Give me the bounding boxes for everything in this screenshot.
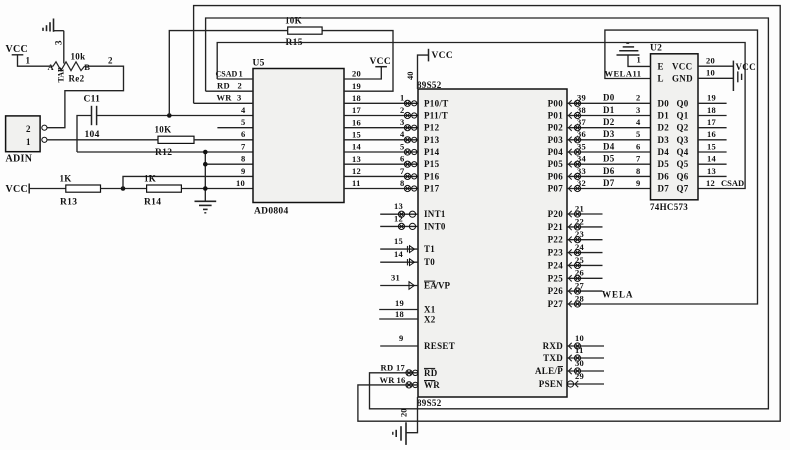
wire T1 stub bbox=[380, 246, 418, 253]
svg-text:D5: D5 bbox=[603, 154, 615, 164]
label P24 (89S52) bbox=[548, 260, 564, 270]
wire AD0804 pin16 to 89S52 P12 bbox=[344, 127, 418, 129]
pin decoration 89S52 pin6 bbox=[404, 161, 416, 167]
pin number 18 (74HC573 right) bbox=[707, 105, 716, 115]
label T0 (89S52) bbox=[424, 257, 435, 267]
wire AD0804 pin19 to R15 bbox=[322, 31, 393, 92]
svg-text:D4: D4 bbox=[603, 141, 615, 151]
pin number 5 (AD0804 left) bbox=[241, 117, 246, 127]
wire Q4 stub bbox=[698, 151, 727, 153]
svg-text:25: 25 bbox=[575, 255, 584, 265]
svg-text:/VP: /VP bbox=[435, 281, 451, 291]
label P27 (89S52) bbox=[548, 299, 564, 309]
svg-text:P21: P21 bbox=[548, 222, 564, 232]
svg-text:1: 1 bbox=[239, 69, 244, 79]
label D0 (bus) bbox=[603, 93, 615, 103]
pin number 7 (89S52 left) bbox=[400, 166, 405, 176]
pot pin 2 label bbox=[108, 56, 113, 66]
svg-text:15: 15 bbox=[394, 236, 403, 246]
svg-text:15: 15 bbox=[352, 129, 361, 139]
wire ADIN pin1 to R12 bbox=[47, 139, 158, 141]
label TXD (89S52) bbox=[543, 353, 563, 363]
wire AD0804 pin17 to 89S52 P11 bbox=[344, 115, 418, 117]
pin number 17 (AD0804 right) bbox=[352, 105, 362, 115]
svg-text:89S52: 89S52 bbox=[417, 398, 442, 408]
capacitor C11 (104) bbox=[84, 95, 101, 141]
label P26 (89S52) bbox=[548, 286, 564, 296]
svg-text:19: 19 bbox=[707, 93, 716, 103]
svg-text:VCC: VCC bbox=[432, 51, 453, 61]
svg-text:P12: P12 bbox=[424, 123, 440, 133]
pin decoration 89S52 pin1 bbox=[404, 100, 416, 106]
wire PSEN stub bbox=[567, 381, 604, 387]
junction R13/R14 node bbox=[121, 186, 126, 191]
potentiometer Re2 (10k) bbox=[48, 62, 91, 72]
pin decoration 89S52 pin3 bbox=[404, 125, 416, 131]
svg-text:P03: P03 bbox=[548, 135, 564, 145]
svg-text:Q5: Q5 bbox=[677, 159, 689, 169]
svg-text:ADIN: ADIN bbox=[6, 154, 33, 165]
label X1 (89S52) bbox=[424, 305, 436, 315]
wire AD0804 pin13 to 89S52 P15 bbox=[344, 163, 418, 165]
pin number 6 (74HC573 left) bbox=[636, 141, 641, 151]
svg-text:20: 20 bbox=[352, 69, 361, 79]
label P20 (89S52) bbox=[548, 209, 564, 219]
wire AD0804 pin11 to 89S52 P17 bbox=[344, 188, 418, 190]
pin number 15 (74HC573 right) bbox=[707, 141, 716, 151]
wire C11 right to AD0804 pin4 bbox=[97, 115, 253, 117]
pin number 3 (89S52 left) bbox=[400, 117, 405, 127]
power VCC (left, R13 row) bbox=[6, 184, 30, 196]
ground (top-left, rotated) bbox=[43, 19, 64, 32]
pin number 20 (AD0804 right) bbox=[352, 69, 361, 79]
wire P02 / D2 bus bbox=[567, 127, 651, 129]
svg-text:VCC: VCC bbox=[6, 184, 29, 195]
svg-text:36: 36 bbox=[577, 129, 586, 139]
label D3 Q3 (74HC573) bbox=[658, 135, 689, 145]
pin number 39 (89S52 right) bbox=[577, 93, 586, 103]
wire P26 stub bbox=[567, 288, 603, 294]
label D6 (bus) bbox=[603, 166, 615, 176]
pin number 28 (89S52 right) bbox=[575, 293, 584, 303]
svg-text:2: 2 bbox=[238, 81, 243, 91]
label P13 (89S52) bbox=[424, 135, 440, 145]
ADC U5 AD0804 body bbox=[253, 69, 344, 203]
label D4 (bus) bbox=[603, 141, 615, 151]
label RD (89S52, overline) bbox=[424, 368, 438, 378]
wire AD0804 pin14 to 89S52 P14 bbox=[344, 151, 418, 153]
label WR (89S52, overline) bbox=[424, 380, 440, 390]
svg-text:8: 8 bbox=[636, 166, 641, 176]
svg-text:3: 3 bbox=[54, 40, 64, 45]
pin number 35 (89S52 right) bbox=[577, 141, 586, 151]
svg-text:X1: X1 bbox=[424, 305, 436, 315]
label D6 Q6 (74HC573) bbox=[658, 171, 689, 181]
svg-text:16: 16 bbox=[397, 375, 406, 385]
wire ground rail vertical bbox=[204, 152, 206, 201]
wire 74HC573 pin20 VCC stub bbox=[698, 65, 733, 67]
svg-text:2: 2 bbox=[400, 105, 405, 115]
label RXD (89S52) bbox=[543, 341, 564, 351]
svg-text:CSAD: CSAD bbox=[721, 178, 744, 188]
svg-text:18: 18 bbox=[707, 105, 716, 115]
wire Q1 stub bbox=[698, 115, 727, 117]
pin number 20 (74HC573) bbox=[706, 56, 715, 66]
svg-text:P24: P24 bbox=[548, 260, 564, 270]
wire pin7 row bbox=[77, 151, 253, 153]
svg-text:X2: X2 bbox=[424, 315, 436, 325]
pin number 2 (74HC573 left) bbox=[636, 93, 641, 103]
pin number 30 bbox=[575, 358, 584, 368]
svg-text:24: 24 bbox=[575, 242, 585, 252]
label P16 (89S52) bbox=[424, 171, 440, 181]
svg-text:9: 9 bbox=[636, 178, 641, 188]
label E VCC (74HC573) bbox=[658, 61, 693, 71]
svg-text:40: 40 bbox=[405, 72, 415, 81]
svg-text:P06: P06 bbox=[548, 171, 564, 181]
pin number 17 (74HC573 right) bbox=[707, 117, 717, 127]
pin number 22 (89S52 right) bbox=[575, 216, 584, 226]
svg-text:P02: P02 bbox=[548, 123, 564, 133]
svg-text:INT0: INT0 bbox=[424, 221, 446, 231]
pin decoration P06 bbox=[569, 173, 581, 179]
pin number 19 (74HC573 right) bbox=[707, 93, 716, 103]
wire P23 stub bbox=[567, 249, 603, 255]
wire P05 / D5 bus bbox=[567, 163, 651, 165]
svg-text:11: 11 bbox=[575, 345, 584, 355]
svg-text:104: 104 bbox=[85, 130, 100, 140]
svg-text:U2: U2 bbox=[650, 44, 662, 54]
pin number 5 (74HC573 left) bbox=[636, 129, 641, 139]
svg-text:P25: P25 bbox=[548, 273, 564, 283]
svg-text:P17: P17 bbox=[424, 184, 440, 194]
label D0 Q0 (74HC573) bbox=[658, 98, 689, 108]
label P06 (89S52) bbox=[548, 171, 564, 181]
svg-text:17: 17 bbox=[396, 362, 406, 372]
svg-text:15: 15 bbox=[707, 141, 716, 151]
label RESET (89S52) bbox=[424, 341, 455, 351]
svg-text:12: 12 bbox=[352, 166, 361, 176]
svg-text:21: 21 bbox=[575, 203, 584, 213]
wire P20 stub bbox=[567, 211, 603, 217]
svg-text:VCC: VCC bbox=[736, 62, 756, 72]
wire WR loop (AD0804 pin3 to 89S52 pin16) bbox=[194, 6, 781, 422]
label EA/VP (89S52) bbox=[424, 281, 451, 291]
pin number 11 bbox=[575, 345, 584, 355]
svg-text:3: 3 bbox=[636, 105, 641, 115]
svg-text:WELA: WELA bbox=[602, 290, 634, 300]
svg-text:2: 2 bbox=[26, 124, 31, 134]
pin number 14 bbox=[394, 249, 404, 259]
resistor R13 (1K) bbox=[60, 174, 101, 208]
svg-text:P26: P26 bbox=[548, 286, 564, 296]
wire T0 stub bbox=[380, 259, 418, 266]
wire INT1 stub bbox=[380, 211, 418, 217]
svg-text:P15: P15 bbox=[424, 159, 440, 169]
pin number 9 (74HC573 left) bbox=[636, 178, 641, 188]
latch U2 74HC573 body bbox=[651, 54, 699, 200]
svg-text:D1: D1 bbox=[603, 105, 615, 115]
label P14 (89S52) bbox=[424, 147, 440, 157]
svg-text:WR: WR bbox=[217, 93, 233, 103]
label D7 (bus) bbox=[603, 178, 615, 188]
wire 74HC573 pin10 GND stub bbox=[698, 77, 733, 79]
svg-text:D4: D4 bbox=[658, 147, 670, 157]
svg-text:Q1: Q1 bbox=[677, 111, 689, 121]
svg-text:WR: WR bbox=[380, 375, 396, 385]
pin number 12 (74HC573 right) bbox=[706, 178, 715, 188]
label AD0804 bbox=[254, 207, 289, 217]
wire 89S52 pin20 to ground bbox=[406, 397, 418, 433]
label D3 (bus) bbox=[603, 129, 615, 139]
pin number 23 (89S52 right) bbox=[575, 229, 584, 239]
pin number 10 (AD0804 left) bbox=[236, 178, 245, 188]
pin decoration 89S52 pin7 bbox=[404, 173, 416, 179]
wire CSAD net (AD0804 pin1 to 74HC573 Q7) bbox=[217, 43, 745, 189]
svg-text:19: 19 bbox=[352, 81, 361, 91]
label ADIN bbox=[6, 154, 33, 165]
svg-text:1: 1 bbox=[400, 93, 405, 103]
pin number 29 bbox=[575, 371, 584, 381]
svg-text:P11/T: P11/T bbox=[424, 111, 448, 121]
label P00 (89S52) bbox=[548, 98, 564, 108]
svg-text:7: 7 bbox=[241, 141, 246, 151]
svg-text:30: 30 bbox=[575, 358, 584, 368]
pin number 8 (74HC573 left) bbox=[636, 166, 641, 176]
pin decoration P02 bbox=[569, 125, 581, 131]
svg-text:6: 6 bbox=[636, 141, 641, 151]
pin number 11 (AD0804 right) bbox=[352, 178, 361, 188]
label D1 Q1 (74HC573) bbox=[658, 111, 689, 121]
label P12 (89S52) bbox=[424, 123, 440, 133]
wire P25 stub bbox=[567, 275, 603, 281]
label P17 (89S52) bbox=[424, 184, 440, 194]
svg-text:18: 18 bbox=[395, 309, 404, 319]
label D4 Q4 (74HC573) bbox=[658, 147, 689, 157]
wire Q3 stub bbox=[698, 139, 727, 141]
svg-text:P14: P14 bbox=[424, 147, 440, 157]
svg-text:E: E bbox=[658, 61, 664, 71]
svg-text:7: 7 bbox=[636, 154, 641, 164]
pin number 4 (74HC573 left) bbox=[636, 117, 641, 127]
junction C11/R15 riser bbox=[167, 113, 172, 118]
svg-text:1K: 1K bbox=[144, 174, 156, 184]
svg-text:WR: WR bbox=[424, 380, 440, 390]
svg-text:TAP: TAP bbox=[57, 67, 66, 83]
wire RXD stub bbox=[567, 343, 604, 349]
wire 74HC573 pin1 to ground bbox=[628, 55, 651, 66]
svg-text:32: 32 bbox=[577, 178, 586, 188]
svg-text:D2: D2 bbox=[603, 117, 615, 127]
svg-text:18: 18 bbox=[352, 93, 361, 103]
power VCC (89S52 pin40) bbox=[429, 49, 453, 62]
wire TXD stub bbox=[567, 355, 604, 361]
svg-text:26: 26 bbox=[575, 268, 584, 278]
pin number 13 (74HC573 right) bbox=[707, 166, 716, 176]
pin number 8 (89S52 left) bbox=[400, 178, 405, 188]
svg-text:P23: P23 bbox=[548, 248, 564, 258]
svg-text:R12: R12 bbox=[155, 148, 172, 158]
svg-text:31: 31 bbox=[391, 273, 400, 283]
svg-text:33: 33 bbox=[577, 166, 586, 176]
svg-text:RXD: RXD bbox=[543, 341, 564, 351]
svg-text:8: 8 bbox=[241, 154, 246, 164]
svg-text:Re2: Re2 bbox=[69, 74, 85, 84]
pin number 16 (AD0804 right) bbox=[352, 117, 361, 127]
pin decoration P01 bbox=[569, 112, 581, 118]
pin number 36 (89S52 right) bbox=[577, 129, 586, 139]
wire R15 to C11 node bbox=[169, 31, 287, 116]
svg-text:D2: D2 bbox=[658, 123, 670, 133]
pin number 26 (89S52 right) bbox=[575, 268, 584, 278]
svg-text:9: 9 bbox=[399, 333, 404, 343]
pin number 1 (89S52 left) bbox=[400, 93, 405, 103]
pin number 32 (89S52 right) bbox=[577, 178, 586, 188]
ground (above 74HC573 pin1) bbox=[617, 43, 640, 55]
svg-text:12: 12 bbox=[706, 178, 715, 188]
svg-text:6: 6 bbox=[241, 129, 246, 139]
pin number 24 (89S52 right) bbox=[575, 242, 585, 252]
pin number 19 bbox=[395, 298, 404, 308]
svg-text:D5: D5 bbox=[658, 159, 670, 169]
svg-text:D0: D0 bbox=[658, 98, 670, 108]
MCU 89S52 body bbox=[418, 89, 567, 397]
svg-text:22: 22 bbox=[575, 216, 584, 226]
label P15 (89S52) bbox=[424, 159, 440, 169]
pot TAP wiper wire bbox=[57, 31, 66, 83]
wire Q2 stub bbox=[698, 127, 727, 129]
pin number 19 (AD0804 right) bbox=[352, 81, 361, 91]
svg-text:P16: P16 bbox=[424, 171, 440, 181]
pin number 8 (AD0804 left) bbox=[241, 154, 246, 164]
wire C11 left + ground drop bbox=[77, 116, 91, 153]
svg-text:D7: D7 bbox=[658, 184, 670, 194]
pin number 1 (74HC573) bbox=[637, 55, 642, 65]
pin number 15 (AD0804 right) bbox=[352, 129, 361, 139]
pin decoration P05 bbox=[569, 161, 581, 167]
wire P04 / D4 bus bbox=[567, 151, 651, 153]
wire RD loop (AD0804 pin2 to 89S52 pin17) bbox=[206, 18, 769, 409]
svg-text:P00: P00 bbox=[548, 98, 564, 108]
svg-text:9: 9 bbox=[241, 166, 246, 176]
label PSEN (89S52) bbox=[539, 379, 563, 389]
power VCC (top-left) bbox=[6, 44, 50, 66]
svg-text:C11: C11 bbox=[84, 95, 101, 105]
pin number 16 (74HC573 right) bbox=[707, 129, 716, 139]
svg-text:17: 17 bbox=[352, 105, 362, 115]
pin number 10 bbox=[575, 333, 584, 343]
wire AD0804 pin15 to 89S52 P13 bbox=[344, 139, 418, 141]
svg-text:17: 17 bbox=[707, 117, 717, 127]
svg-text:1K: 1K bbox=[60, 174, 72, 184]
pin decoration 89S52 pin2 bbox=[404, 112, 416, 118]
svg-text:D1: D1 bbox=[658, 111, 670, 121]
wire AD0804 pin12 to 89S52 P16 bbox=[344, 175, 418, 177]
pin number 7 (74HC573 left) bbox=[636, 154, 641, 164]
pin decoration P07 bbox=[569, 185, 581, 191]
wire P06 / D6 bus bbox=[567, 175, 651, 177]
wire Q5 stub bbox=[698, 163, 727, 165]
pin number 15 bbox=[394, 236, 403, 246]
label D2 (bus) bbox=[603, 117, 615, 127]
wire P07 / D7 bus bbox=[567, 188, 651, 190]
resistor R14 (1K) bbox=[144, 174, 181, 208]
svg-text:Q6: Q6 bbox=[677, 171, 689, 181]
svg-text:D7: D7 bbox=[603, 178, 615, 188]
svg-text:P27: P27 bbox=[548, 299, 564, 309]
pin number 14 (74HC573 right) bbox=[707, 154, 717, 164]
svg-text:CSAD: CSAD bbox=[216, 70, 238, 79]
pin number 33 (89S52 right) bbox=[577, 166, 586, 176]
wire X2 stub bbox=[379, 318, 418, 320]
pin number 27 (89S52 right) bbox=[575, 281, 585, 291]
pin number 12 (AD0804 right) bbox=[352, 166, 361, 176]
svg-text:5: 5 bbox=[241, 117, 246, 127]
label WR 16 (outside) bbox=[380, 375, 406, 385]
svg-text:L: L bbox=[658, 74, 664, 84]
svg-text:8: 8 bbox=[400, 178, 405, 188]
label WR pin3 bbox=[217, 93, 242, 103]
label D7 Q7 (74HC573) bbox=[658, 184, 689, 194]
label D5 (bus) bbox=[603, 154, 615, 164]
label D2 Q2 (74HC573) bbox=[658, 123, 689, 133]
pin number 20 (rotated) bbox=[399, 409, 409, 418]
svg-text:P07: P07 bbox=[548, 184, 564, 194]
pin number 7 (AD0804 left) bbox=[241, 141, 246, 151]
svg-text:10: 10 bbox=[236, 178, 245, 188]
label U2 bbox=[650, 44, 662, 54]
pin decoration RD bbox=[406, 370, 418, 376]
wire AD0804 pin5 stub bbox=[217, 127, 253, 129]
wire P27 WELA net bbox=[567, 30, 758, 307]
pin decoration P00 bbox=[569, 100, 581, 106]
svg-text:Q2: Q2 bbox=[677, 123, 689, 133]
pin number 31 bbox=[391, 273, 400, 283]
wire AD0804 pin18 to 89S52 P10 bbox=[344, 102, 418, 104]
svg-text:1: 1 bbox=[26, 137, 31, 147]
svg-text:14: 14 bbox=[352, 142, 362, 152]
svg-text:2: 2 bbox=[636, 93, 641, 103]
svg-text:89S52: 89S52 bbox=[417, 80, 442, 90]
svg-text:WELA11: WELA11 bbox=[605, 68, 642, 78]
svg-text:P20: P20 bbox=[548, 209, 564, 219]
svg-text:39: 39 bbox=[577, 93, 586, 103]
power VCC (74HC573 pin20) bbox=[733, 61, 756, 91]
svg-text:4: 4 bbox=[241, 105, 246, 115]
svg-text:3: 3 bbox=[400, 117, 405, 127]
wire ALE stub bbox=[567, 368, 604, 374]
svg-text:35: 35 bbox=[577, 141, 586, 151]
svg-text:19: 19 bbox=[395, 298, 404, 308]
svg-text:D3: D3 bbox=[658, 135, 670, 145]
label RD 17 (outside) bbox=[381, 362, 406, 372]
wire R12 to AD0804 pin6 bbox=[194, 139, 253, 141]
svg-text:20: 20 bbox=[706, 56, 715, 66]
label Re2 bbox=[69, 74, 85, 84]
svg-text:2: 2 bbox=[108, 56, 113, 66]
wire 89S52 pin40 to VCC bbox=[418, 55, 429, 89]
junction rail/pin7 bbox=[203, 150, 208, 155]
svg-text:5: 5 bbox=[636, 129, 641, 139]
svg-text:14: 14 bbox=[394, 249, 404, 259]
wire AD0804 pin20 to VCC bbox=[344, 67, 381, 79]
label T1 (89S52) bbox=[424, 244, 435, 254]
svg-text:P04: P04 bbox=[548, 147, 564, 157]
svg-text:D6: D6 bbox=[658, 171, 670, 181]
svg-text:7: 7 bbox=[400, 166, 405, 176]
svg-text:GND: GND bbox=[672, 74, 693, 84]
wire EA/VP stub bbox=[380, 282, 418, 290]
